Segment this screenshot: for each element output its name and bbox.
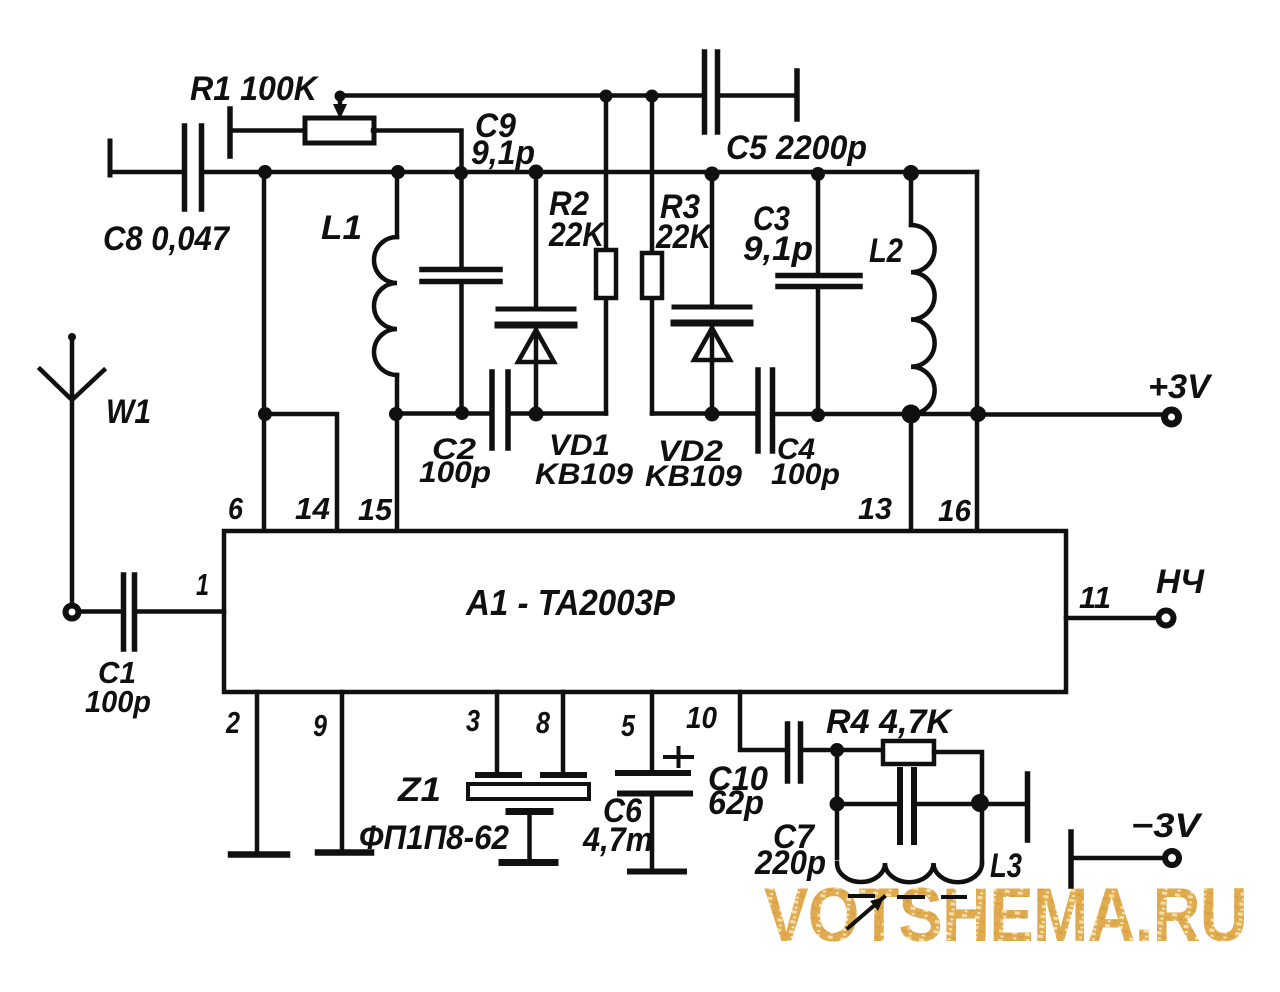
svg-text:22K: 22K	[655, 218, 713, 256]
svg-text:14: 14	[295, 491, 330, 526]
svg-text:16: 16	[938, 493, 972, 528]
svg-text:5: 5	[621, 708, 636, 743]
svg-text:10: 10	[686, 700, 717, 735]
svg-text:100p: 100p	[419, 456, 491, 489]
svg-text:VOTSHEMA.RU: VOTSHEMA.RU	[764, 873, 1247, 958]
svg-text:22K: 22K	[548, 216, 606, 254]
svg-text:4,7m: 4,7m	[582, 821, 653, 859]
svg-text:3: 3	[466, 703, 480, 738]
svg-text:9: 9	[313, 708, 328, 743]
svg-text:62p: 62p	[708, 784, 764, 822]
svg-text:13: 13	[858, 491, 892, 526]
svg-text:+3V: +3V	[1148, 368, 1213, 406]
svg-text:C8 0,047: C8 0,047	[103, 220, 231, 258]
svg-text:R1 100K: R1 100K	[190, 70, 319, 108]
svg-text:C5 2200p: C5 2200p	[726, 129, 867, 167]
svg-text:11: 11	[1079, 580, 1111, 615]
svg-text:Z1: Z1	[397, 771, 441, 809]
svg-text:L2: L2	[869, 232, 903, 270]
svg-text:ФП1П8-62: ФП1П8-62	[359, 819, 509, 857]
svg-text:−3V: −3V	[1131, 807, 1204, 845]
svg-text:W1: W1	[106, 393, 151, 431]
svg-text:100p: 100p	[85, 684, 151, 719]
svg-text:220p: 220p	[754, 844, 826, 882]
svg-text:L3: L3	[990, 847, 1022, 885]
svg-text:L1: L1	[321, 209, 362, 247]
svg-text:A1 - TA2003P: A1 - TA2003P	[465, 582, 676, 623]
svg-text:KB109: KB109	[645, 460, 742, 493]
svg-text:НЧ: НЧ	[1156, 563, 1205, 601]
svg-text:KB109: KB109	[535, 458, 633, 491]
svg-text:15: 15	[358, 492, 393, 527]
svg-text:100p: 100p	[771, 458, 840, 491]
svg-text:6: 6	[228, 491, 244, 526]
svg-text:R4 4,7K: R4 4,7K	[826, 703, 953, 741]
svg-text:9,1p: 9,1p	[743, 230, 813, 268]
svg-text:2: 2	[225, 705, 240, 740]
svg-text:8: 8	[536, 705, 551, 740]
svg-text:9,1p: 9,1p	[471, 134, 535, 172]
svg-text:1: 1	[196, 567, 209, 602]
